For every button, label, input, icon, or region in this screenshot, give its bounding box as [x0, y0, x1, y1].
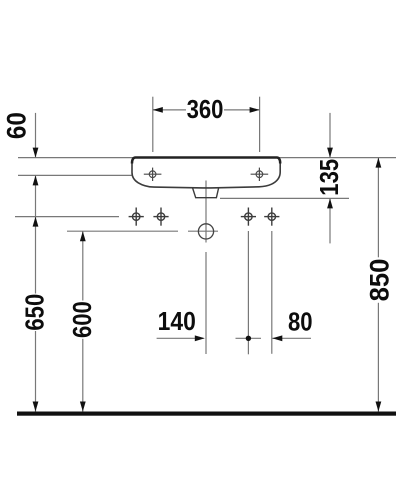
svg-text:360: 360	[187, 96, 224, 125]
svg-text:850: 850	[364, 259, 395, 302]
svg-text:60: 60	[2, 112, 31, 139]
svg-text:80: 80	[288, 308, 313, 337]
svg-text:140: 140	[158, 308, 196, 337]
svg-text:600: 600	[69, 301, 98, 338]
svg-text:650: 650	[21, 294, 50, 331]
svg-text:135: 135	[316, 159, 345, 196]
